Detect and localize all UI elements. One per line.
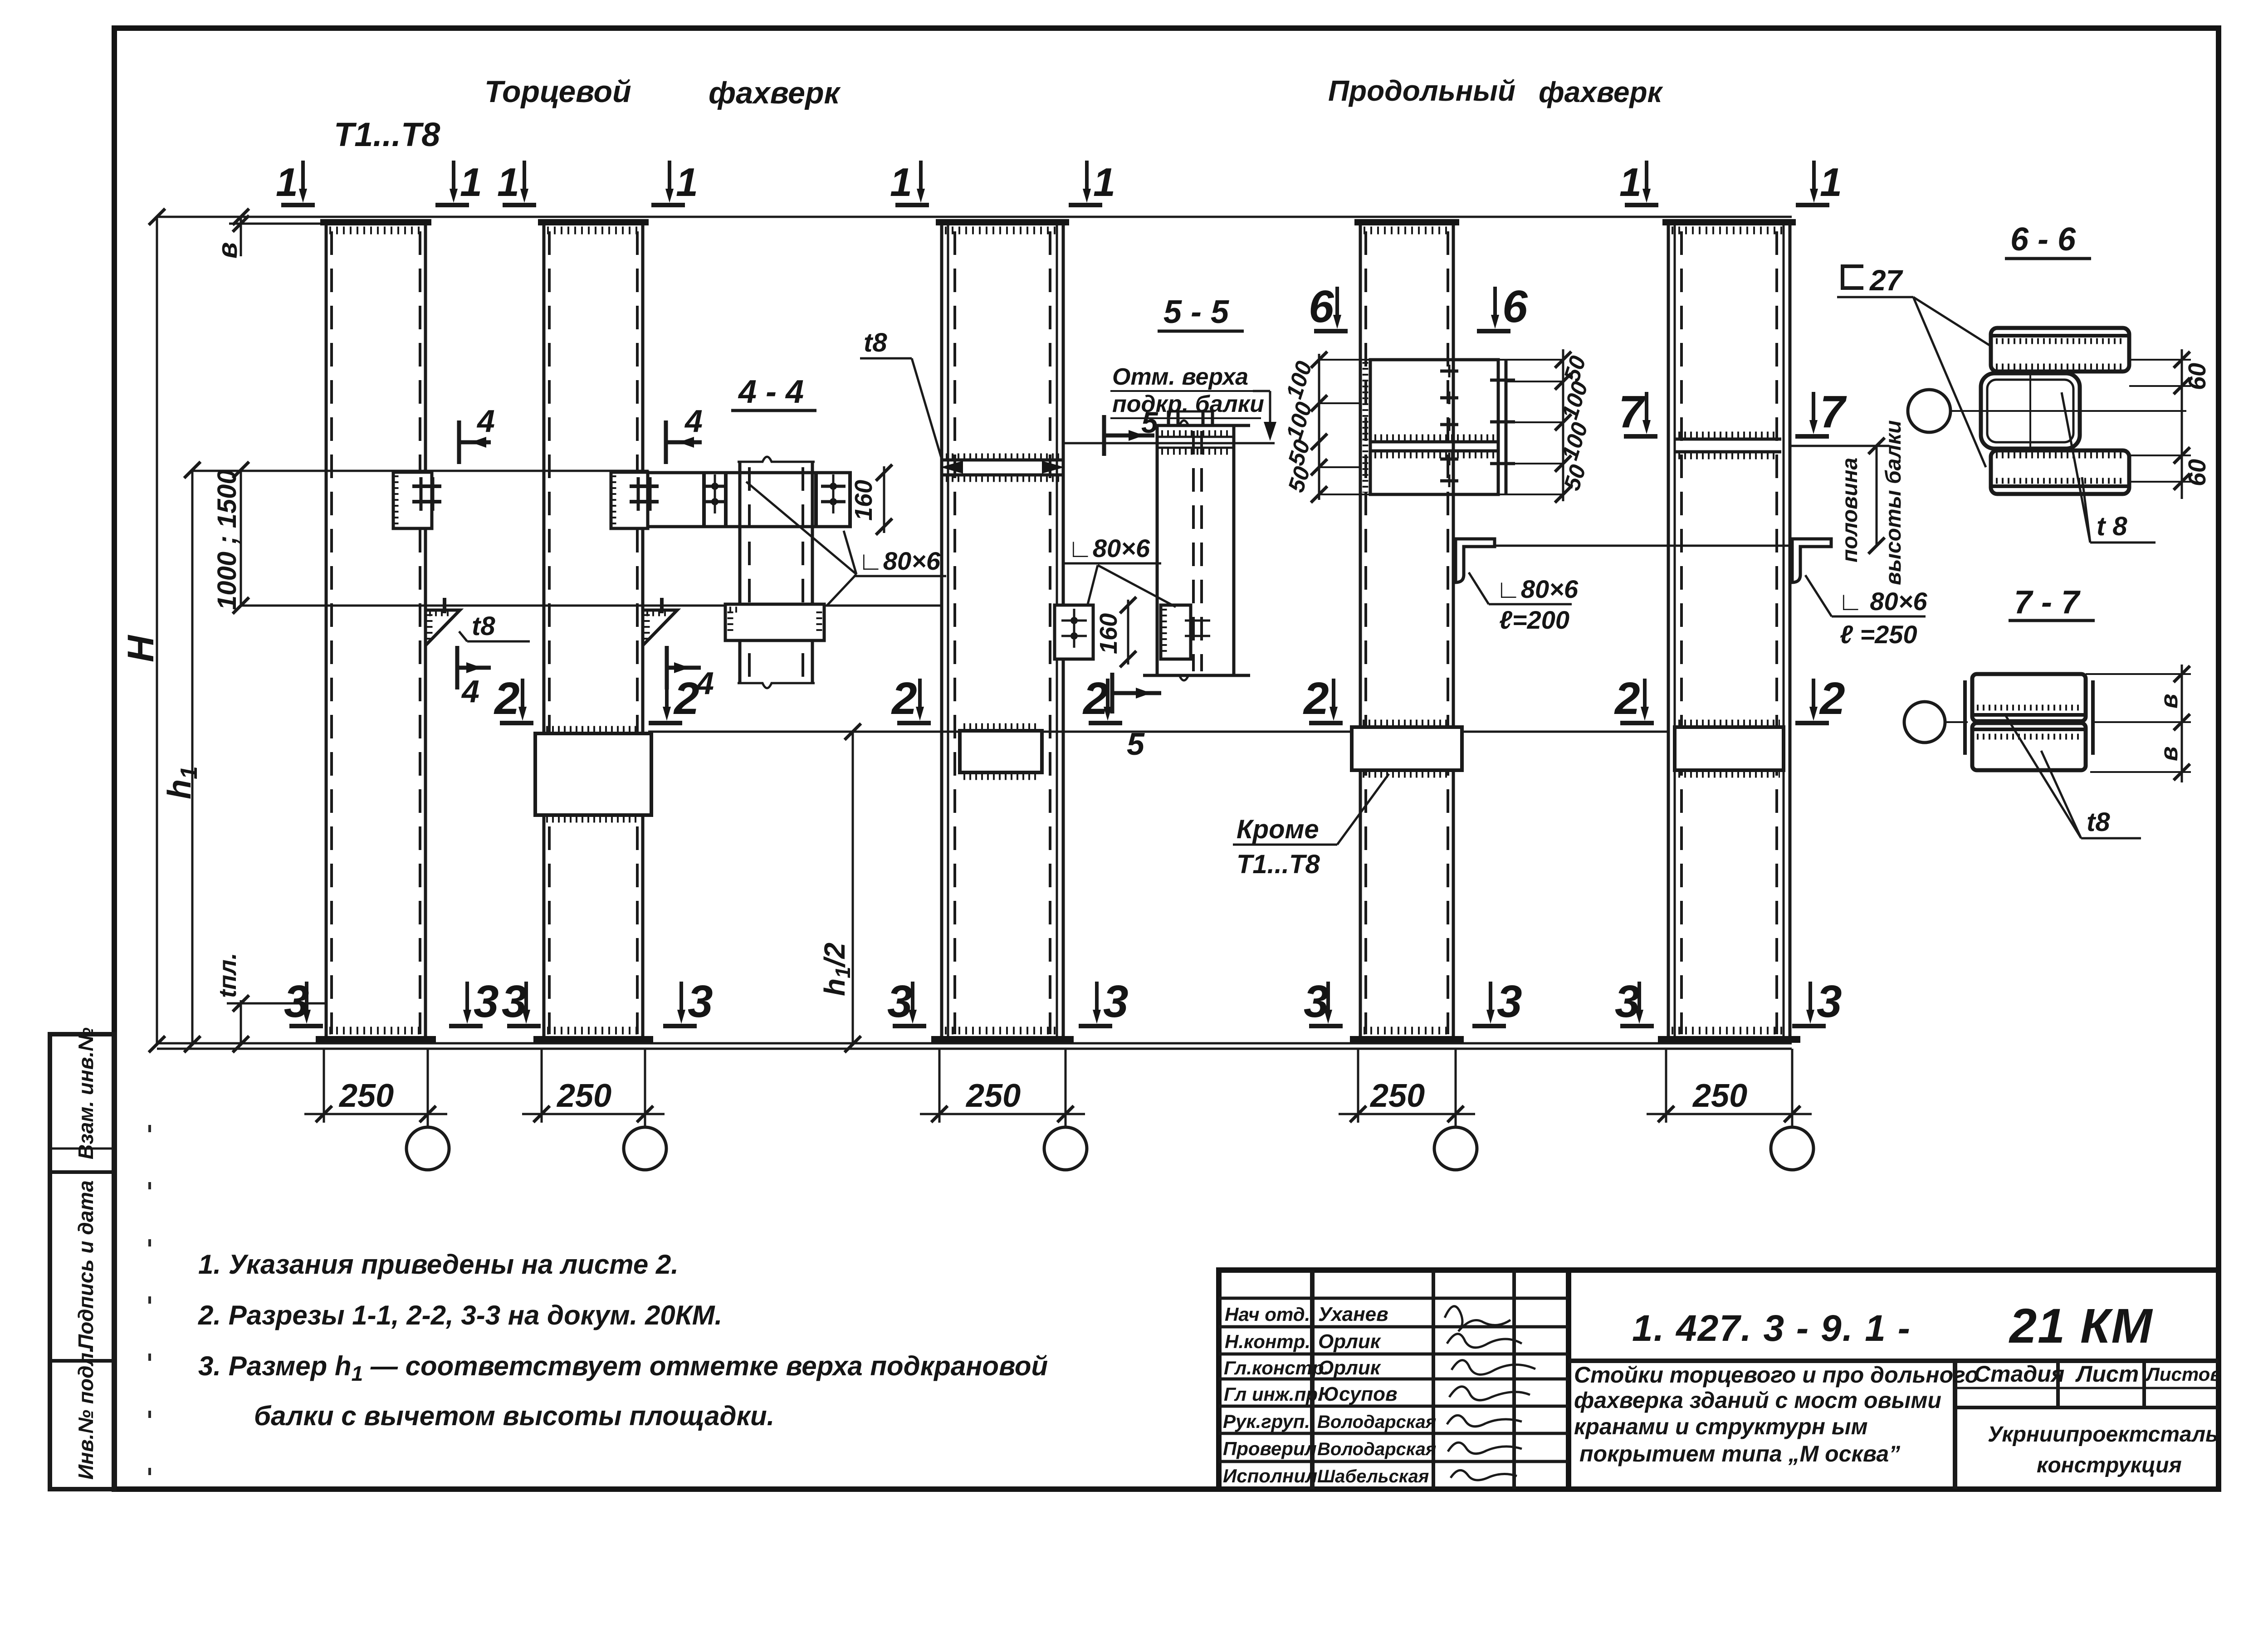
svg-text:3: 3 bbox=[688, 976, 713, 1027]
svg-text:кранами и структурн ым: кранами и структурн ым bbox=[1574, 1414, 1868, 1439]
svg-text:фахверк: фахверк bbox=[709, 76, 841, 110]
svg-text:4: 4 bbox=[476, 403, 495, 439]
svg-text:ℓ =250: ℓ =250 bbox=[1840, 620, 1917, 649]
svg-text:3: 3 bbox=[502, 976, 527, 1027]
svg-text:ℓ=200: ℓ=200 bbox=[1499, 606, 1569, 634]
svg-text:4: 4 bbox=[461, 674, 479, 709]
svg-text:Н: Н bbox=[120, 635, 161, 662]
svg-text:Гл.констр.: Гл.констр. bbox=[1224, 1357, 1329, 1378]
svg-text:7: 7 bbox=[1820, 386, 1847, 437]
svg-text:250: 250 bbox=[338, 1078, 394, 1114]
svg-text:2: 2 bbox=[1303, 673, 1329, 724]
svg-text:Стойки торцевого и про дольног: Стойки торцевого и про дольного bbox=[1574, 1362, 1979, 1388]
svg-text:Уханев: Уханев bbox=[1318, 1303, 1388, 1325]
svg-text:Шабельская: Шабельская bbox=[1317, 1466, 1429, 1486]
svg-text:Володарская: Володарская bbox=[1317, 1439, 1436, 1459]
svg-text:подкр. балки: подкр. балки bbox=[1112, 391, 1264, 417]
svg-text:1: 1 bbox=[497, 160, 519, 205]
svg-text:фахверка зданий с мост овыми: фахверка зданий с мост овыми bbox=[1574, 1388, 1941, 1413]
svg-text:Т1...Т8: Т1...Т8 bbox=[1237, 850, 1320, 879]
svg-text:1: 1 bbox=[1820, 160, 1842, 205]
svg-text:6: 6 bbox=[1309, 281, 1334, 332]
svg-text:в: в bbox=[212, 242, 243, 259]
svg-text:6 - 6: 6 - 6 bbox=[2010, 221, 2076, 258]
svg-text:1. 427. 3 - 9. 1 -: 1. 427. 3 - 9. 1 - bbox=[1632, 1308, 1911, 1349]
svg-text:Подпись и дата: Подпись и дата bbox=[74, 1180, 98, 1349]
svg-text:Юсупов: Юсупов bbox=[1318, 1383, 1398, 1405]
svg-text:1: 1 bbox=[676, 160, 698, 205]
svg-text:Гл инж.пр.: Гл инж.пр. bbox=[1224, 1383, 1323, 1405]
svg-text:1. Указания приведены на ли: 1. Указания приведены на листе 2. bbox=[198, 1249, 679, 1280]
svg-text:∟80×6: ∟80×6 bbox=[1068, 534, 1150, 562]
svg-text:3. Размер h1 — соответствует: 3. Размер h1 — соответствует отметке вер… bbox=[198, 1351, 1048, 1385]
svg-text:2: 2 bbox=[1082, 673, 1109, 724]
svg-text:2: 2 bbox=[494, 673, 520, 724]
svg-text:5: 5 bbox=[1127, 726, 1145, 762]
svg-text:высоты балки: высоты балки bbox=[1882, 420, 1906, 585]
svg-text:Рук.груп.: Рук.груп. bbox=[1223, 1411, 1310, 1432]
svg-text:21 КМ: 21 КМ bbox=[2009, 1298, 2153, 1353]
svg-text:3: 3 bbox=[284, 976, 309, 1027]
svg-text:t8: t8 bbox=[864, 328, 887, 357]
svg-text:1: 1 bbox=[890, 160, 912, 205]
svg-text:Н.контр.: Н.контр. bbox=[1225, 1331, 1310, 1352]
svg-text:балки с вычетом высоты пло: балки с вычетом высоты площадки. bbox=[254, 1401, 774, 1431]
svg-text:3: 3 bbox=[887, 976, 913, 1027]
svg-text:∟80×6: ∟80×6 bbox=[858, 547, 941, 575]
svg-text:1: 1 bbox=[1093, 160, 1115, 205]
svg-text:6: 6 bbox=[1502, 281, 1528, 332]
svg-text:60: 60 bbox=[2184, 363, 2211, 390]
svg-text:Проверил: Проверил bbox=[1223, 1438, 1317, 1459]
svg-text:в: в bbox=[2156, 694, 2183, 709]
svg-text:Исполнил: Исполнил bbox=[1223, 1465, 1317, 1486]
svg-text:фахверк: фахверк bbox=[1539, 76, 1664, 108]
svg-text:3: 3 bbox=[1103, 976, 1129, 1027]
svg-text:Продольный: Продольный bbox=[1328, 74, 1515, 107]
svg-text:Торцевой: Торцевой bbox=[484, 74, 631, 109]
svg-text:tпл.: tпл. bbox=[214, 953, 241, 998]
svg-text:7: 7 bbox=[1618, 386, 1646, 437]
svg-text:3: 3 bbox=[1497, 976, 1522, 1027]
svg-text:1000 ; 1500: 1000 ; 1500 bbox=[212, 469, 242, 610]
svg-text:250: 250 bbox=[965, 1078, 1021, 1114]
svg-text:∟ 80×6: ∟ 80×6 bbox=[1838, 587, 1927, 616]
svg-text:1: 1 bbox=[1619, 160, 1642, 205]
svg-text:4: 4 bbox=[695, 665, 714, 701]
svg-text:4 - 4: 4 - 4 bbox=[738, 374, 804, 410]
svg-text:3: 3 bbox=[1615, 976, 1640, 1027]
svg-text:Взам. инв.№: Взам. инв.№ bbox=[74, 1027, 98, 1159]
svg-text:Стадия: Стадия bbox=[1974, 1361, 2064, 1387]
svg-text:конструкция: конструкция bbox=[2037, 1453, 2182, 1477]
svg-text:Т1...Т8: Т1...Т8 bbox=[334, 116, 440, 153]
svg-text:27: 27 bbox=[1869, 264, 1904, 297]
svg-text:покрытием типа „М осква”: покрытием типа „М осква” bbox=[1579, 1441, 1900, 1466]
svg-text:3: 3 bbox=[474, 976, 499, 1027]
svg-text:t8: t8 bbox=[472, 611, 495, 641]
svg-text:7 - 7: 7 - 7 bbox=[2014, 584, 2081, 621]
svg-text:1: 1 bbox=[460, 160, 482, 205]
svg-text:Орлик: Орлик bbox=[1318, 1357, 1382, 1379]
svg-text:60: 60 bbox=[2184, 459, 2211, 486]
svg-text:Инв.№ подл.: Инв.№ подл. bbox=[74, 1347, 98, 1480]
svg-text:Нач отд.: Нач отд. bbox=[1225, 1304, 1310, 1325]
svg-text:2. Разрезы 1-1, 2-2, 3-3 на: 2. Разрезы 1-1, 2-2, 3-3 на докум. 20КМ. bbox=[198, 1300, 722, 1330]
svg-text:250: 250 bbox=[556, 1078, 611, 1114]
svg-text:Орлик: Орлик bbox=[1318, 1330, 1382, 1353]
svg-text:3: 3 bbox=[1304, 976, 1329, 1027]
svg-text:Листов: Листов bbox=[2145, 1364, 2222, 1385]
svg-text:половина: половина bbox=[1838, 458, 1862, 562]
svg-text:4: 4 bbox=[684, 403, 703, 439]
svg-text:160: 160 bbox=[850, 480, 877, 521]
svg-text:Кроме: Кроме bbox=[1237, 815, 1319, 844]
svg-text:∟80×6: ∟80×6 bbox=[1496, 575, 1579, 603]
svg-text:Отм. верха: Отм. верха bbox=[1112, 364, 1248, 390]
svg-text:2: 2 bbox=[1614, 673, 1640, 724]
svg-text:t 8: t 8 bbox=[2097, 512, 2127, 541]
svg-text:2: 2 bbox=[891, 673, 917, 724]
svg-text:Володарская: Володарская bbox=[1317, 1412, 1436, 1432]
svg-text:в: в bbox=[2156, 746, 2183, 761]
svg-text:2: 2 bbox=[1819, 673, 1845, 724]
svg-text:Лист: Лист bbox=[2075, 1361, 2139, 1387]
svg-text:3: 3 bbox=[1817, 976, 1842, 1027]
svg-text:5 - 5: 5 - 5 bbox=[1163, 294, 1229, 330]
svg-text:1: 1 bbox=[276, 160, 298, 205]
svg-text:t8: t8 bbox=[2087, 807, 2110, 837]
svg-text:160: 160 bbox=[1095, 613, 1122, 654]
svg-text:250: 250 bbox=[1692, 1078, 1747, 1114]
svg-text:250: 250 bbox=[1369, 1078, 1425, 1114]
svg-text:2: 2 bbox=[673, 673, 699, 724]
svg-text:Укрниипроектсталь: Укрниипроектсталь bbox=[1988, 1422, 2219, 1447]
